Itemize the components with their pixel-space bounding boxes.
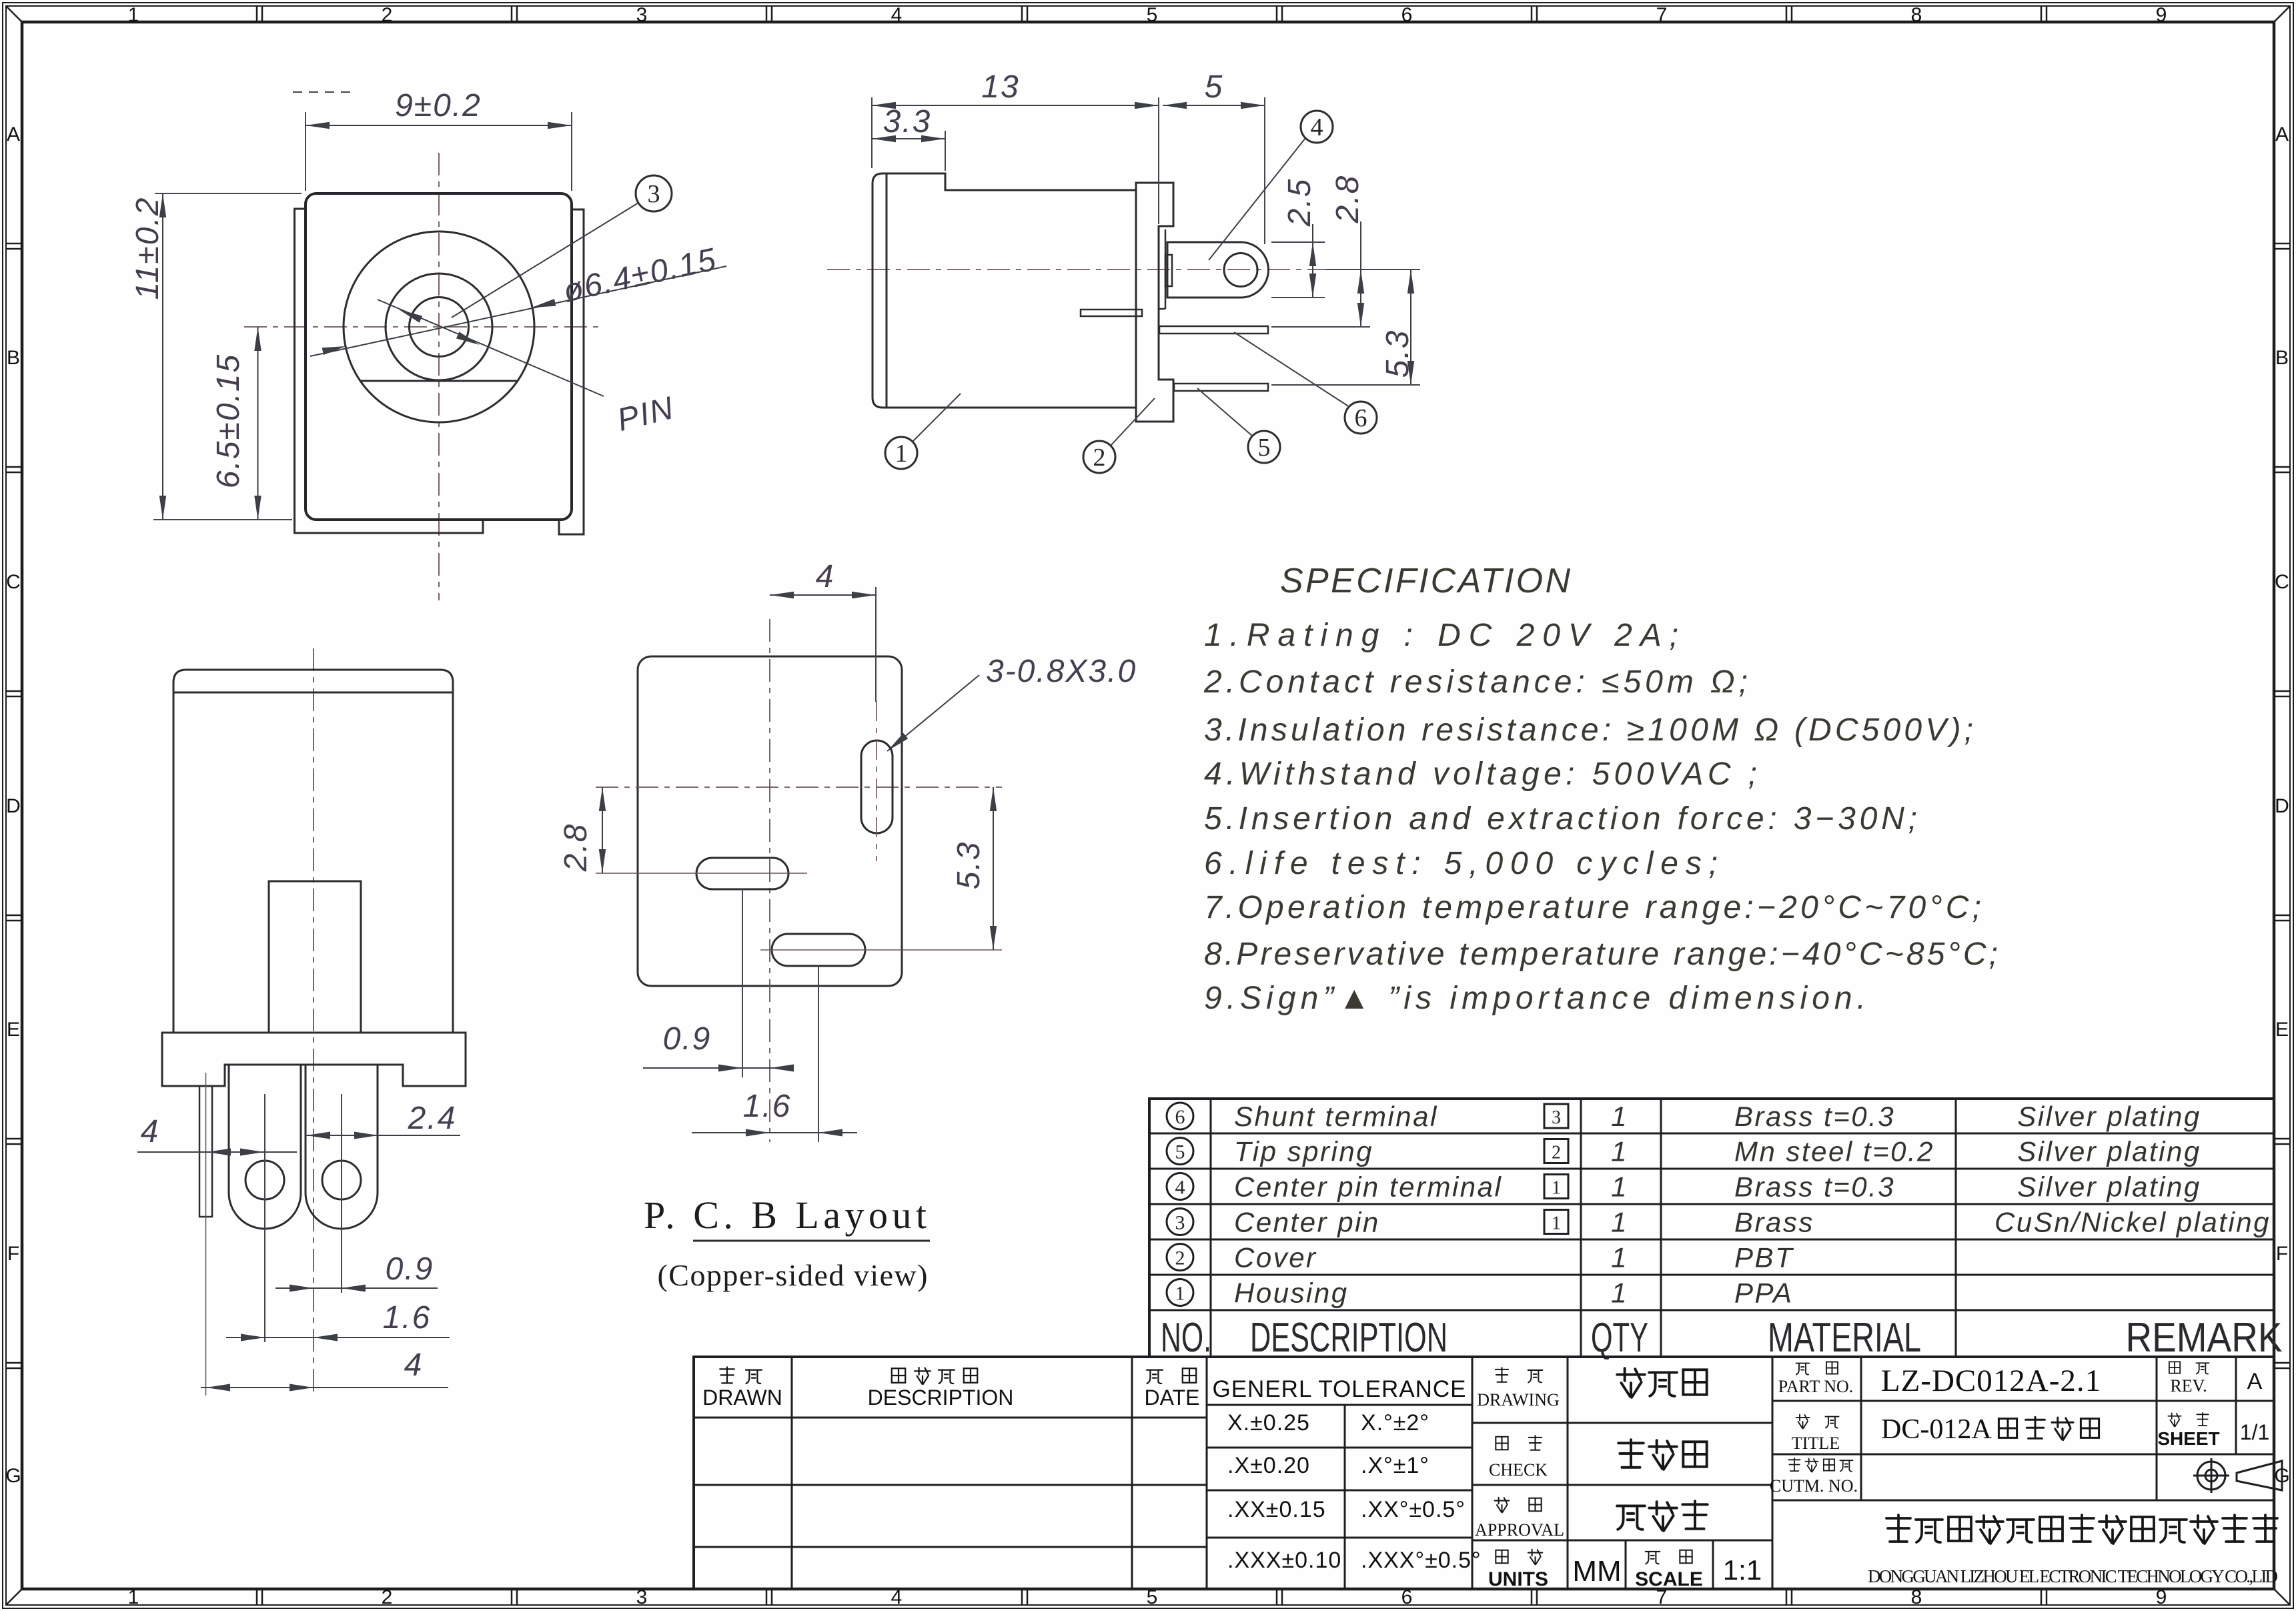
side view: DC jack profile xyxy=(827,69,1420,473)
svg-text:SCALE: SCALE xyxy=(1635,1568,1703,1590)
svg-text:B: B xyxy=(7,347,20,369)
balloon 5 (tip spring) xyxy=(1248,431,1280,463)
svg-text:PPA: PPA xyxy=(1734,1277,1793,1309)
balloon 5 leader xyxy=(1197,388,1253,436)
svg-text:DESCRIPTION: DESCRIPTION xyxy=(868,1386,1014,1410)
company name (Chinese) xyxy=(1886,1515,1910,1542)
BOM row 6: Shunt terminal xyxy=(1167,1103,1193,1129)
tip spring tab (left) xyxy=(1081,310,1142,316)
svg-text:5: 5 xyxy=(1147,4,1158,26)
svg-text:1.6: 1.6 xyxy=(383,1300,432,1335)
pcb vertical centerline xyxy=(769,619,770,1142)
pcb body outline xyxy=(638,656,902,986)
svg-text:5: 5 xyxy=(1175,1141,1185,1163)
svg-text:Silver plating: Silver plating xyxy=(2017,1171,2201,1203)
housing chamfer line xyxy=(173,692,453,694)
title label xyxy=(1796,1415,1810,1429)
svg-text:1: 1 xyxy=(1175,1283,1185,1305)
svg-text:UNITS: UNITS xyxy=(1488,1568,1548,1590)
svg-text:LZ-DC012A-2.1: LZ-DC012A-2.1 xyxy=(1881,1364,2101,1398)
BOM row 5: Tip spring xyxy=(1167,1138,1193,1165)
svg-text:.X°±1°: .X°±1° xyxy=(1361,1453,1429,1478)
part no label xyxy=(1796,1364,1810,1375)
svg-text:3: 3 xyxy=(636,4,648,26)
svg-text:DONGGUAN LIZHOU EL ECTRONIC TE: DONGGUAN LIZHOU EL ECTRONIC TECHNOLOGY C… xyxy=(1868,1566,2278,1586)
balloon 1 leader xyxy=(913,394,961,442)
svg-text:6: 6 xyxy=(1401,4,1413,26)
svg-text:PART NO.: PART NO. xyxy=(1778,1377,1854,1396)
rear view vertical centerline xyxy=(313,648,314,1396)
svg-text:3.3: 3.3 xyxy=(883,104,932,139)
svg-text:DRAWING: DRAWING xyxy=(1477,1390,1560,1410)
svg-text:CUTM. NO.: CUTM. NO. xyxy=(1770,1476,1858,1496)
chord across outer circle xyxy=(360,380,518,382)
units label xyxy=(1496,1550,1508,1563)
svg-text:F: F xyxy=(7,1243,19,1265)
balloon 4 leader xyxy=(1209,138,1305,260)
cover front plate (rounded square body) xyxy=(306,193,572,520)
svg-text:Center pin: Center pin xyxy=(1234,1207,1380,1238)
balloon 6 (shunt terminal) xyxy=(1345,402,1377,434)
svg-text:.XX°±0.5°: .XX°±0.5° xyxy=(1361,1497,1466,1522)
svg-text:MM: MM xyxy=(1572,1555,1621,1588)
svg-text:2.8: 2.8 xyxy=(1330,175,1365,224)
svg-text:5.3: 5.3 xyxy=(951,841,987,890)
svg-text:Silver plating: Silver plating xyxy=(2017,1101,2201,1132)
BOM row 4: Center pin terminal xyxy=(1167,1173,1193,1200)
svg-text:MATERIAL: MATERIAL xyxy=(1768,1315,1921,1361)
slot hole left (horizontal) xyxy=(696,858,788,889)
side view centerline xyxy=(827,269,1329,270)
svg-text:1: 1 xyxy=(1611,1136,1628,1167)
balloon 3 leader xyxy=(452,203,638,318)
cover clip strip xyxy=(1165,229,1167,309)
svg-text:1: 1 xyxy=(1611,1207,1628,1238)
approval name xyxy=(1617,1506,1645,1529)
svg-text:2.8: 2.8 xyxy=(558,823,594,873)
svg-text:2.4: 2.4 xyxy=(408,1101,457,1136)
svg-text:2: 2 xyxy=(1175,1247,1185,1269)
svg-text:4: 4 xyxy=(1175,1177,1185,1199)
svg-text:G: G xyxy=(5,1465,21,1487)
svg-text:1/1: 1/1 xyxy=(2240,1420,2269,1444)
svg-text:DRAWN: DRAWN xyxy=(702,1386,782,1410)
drawing label xyxy=(1496,1368,1508,1382)
cover front plate inner edge xyxy=(886,174,888,407)
svg-text:GENERL TOLERANCE: GENERL TOLERANCE xyxy=(1212,1376,1466,1402)
svg-text:D: D xyxy=(2275,795,2289,817)
svg-text:13: 13 xyxy=(981,69,1019,105)
stray dashed line top-left xyxy=(293,91,352,93)
BOM parts table xyxy=(1149,1099,2283,1361)
balloon 6 leader xyxy=(1234,332,1349,407)
svg-text:3: 3 xyxy=(636,1586,648,1608)
sheet label xyxy=(2168,1413,2181,1426)
svg-text:CHECK: CHECK xyxy=(1489,1460,1548,1480)
svg-text:1: 1 xyxy=(1611,1171,1628,1203)
rear view: housing from behind xyxy=(137,648,466,1396)
svg-text:.XX±0.15: .XX±0.15 xyxy=(1227,1497,1326,1522)
svg-text:1: 1 xyxy=(128,1586,139,1608)
hole in terminal ear xyxy=(1224,253,1257,287)
shunt terminal pin (top) xyxy=(1159,326,1268,334)
drawing name xyxy=(1617,1368,1645,1398)
svg-text:Center pin terminal: Center pin terminal xyxy=(1234,1171,1502,1203)
svg-text:Cover: Cover xyxy=(1234,1242,1317,1273)
side pin centerline xyxy=(205,1073,207,1396)
svg-text:1:1: 1:1 xyxy=(1723,1554,1762,1586)
svg-text:3: 3 xyxy=(648,180,660,208)
svg-text:1: 1 xyxy=(895,440,908,468)
svg-text:5: 5 xyxy=(1258,434,1271,462)
balloon 1 (housing) xyxy=(885,437,917,469)
bottom slot centerline xyxy=(760,949,1002,951)
svg-text:Tip spring: Tip spring xyxy=(1234,1136,1373,1167)
left prong hole xyxy=(245,1161,284,1199)
specification text block xyxy=(1203,562,1998,1016)
mounting flange xyxy=(162,1033,466,1086)
barrel outer circle ø6.4 xyxy=(344,231,534,422)
title block texts xyxy=(702,1362,2282,1590)
svg-text:SHEET: SHEET xyxy=(2157,1428,2219,1449)
svg-text:1: 1 xyxy=(1611,1242,1628,1273)
BOM row 1: Housing xyxy=(1167,1279,1193,1306)
left slot centerline xyxy=(596,873,807,874)
svg-text:2: 2 xyxy=(382,1586,393,1608)
svg-text:A: A xyxy=(2247,1369,2263,1394)
svg-text:C: C xyxy=(2275,571,2289,593)
balloon 2 leader xyxy=(1111,398,1155,446)
svg-text:1: 1 xyxy=(1552,1178,1561,1199)
center pin stub xyxy=(1165,255,1172,286)
slot hole right (vertical) xyxy=(861,740,893,833)
front view: DC jack face xyxy=(130,88,726,600)
slot hole bottom (horizontal) xyxy=(772,934,865,966)
svg-text:3: 3 xyxy=(1175,1212,1185,1234)
center pin terminal ear xyxy=(1167,242,1268,298)
svg-text:B: B xyxy=(2275,347,2289,369)
BOM row 3: Center pin xyxy=(1167,1209,1193,1235)
svg-text:DC-012A: DC-012A xyxy=(1881,1414,1992,1445)
prong extension lines xyxy=(264,1094,265,1342)
svg-text:PBT: PBT xyxy=(1734,1242,1794,1273)
svg-text:X.°±2°: X.°±2° xyxy=(1361,1410,1429,1436)
svg-text:X.±0.25: X.±0.25 xyxy=(1227,1410,1310,1436)
svg-text:NO.: NO. xyxy=(1161,1315,1211,1361)
svg-text:1: 1 xyxy=(128,4,139,26)
svg-text:1: 1 xyxy=(1611,1277,1628,1309)
barrel middle circle xyxy=(386,274,492,380)
svg-text:4: 4 xyxy=(141,1114,160,1149)
svg-text:4: 4 xyxy=(404,1348,424,1383)
svg-text:6: 6 xyxy=(1355,404,1367,432)
svg-text:P. C. B Layout: P. C. B Layout xyxy=(644,1193,927,1237)
approval label xyxy=(1495,1498,1510,1513)
svg-text:CuSn/Nickel plating: CuSn/Nickel plating xyxy=(1994,1207,2271,1238)
svg-text:C: C xyxy=(6,571,21,593)
svg-text:F: F xyxy=(2276,1243,2288,1265)
svg-text:(Copper-sided view): (Copper-sided view) xyxy=(658,1258,928,1292)
side pin (thin) xyxy=(199,1086,212,1217)
check label xyxy=(1496,1437,1508,1450)
svg-text:8: 8 xyxy=(1911,4,1922,26)
housing right edge (side view) xyxy=(1135,183,1137,422)
svg-text:REV.: REV. xyxy=(2170,1376,2207,1396)
svg-text:0.9: 0.9 xyxy=(663,1021,712,1057)
check name xyxy=(1618,1440,1643,1468)
svg-text:9: 9 xyxy=(2156,4,2167,26)
svg-text:2: 2 xyxy=(1552,1143,1561,1163)
svg-text:2: 2 xyxy=(382,4,393,26)
balloon 4 (center pin terminal) xyxy=(1301,111,1333,143)
right slot centerline xyxy=(876,701,877,861)
svg-text:6.5±0.15: 6.5±0.15 xyxy=(211,354,246,489)
svg-text:6: 6 xyxy=(1175,1106,1185,1128)
third angle projection symbol xyxy=(2197,1462,2225,1490)
housing left flange behind cover xyxy=(295,209,484,533)
svg-text:APPROVAL: APPROVAL xyxy=(1475,1520,1564,1540)
svg-text:E: E xyxy=(7,1019,20,1041)
scale label xyxy=(1646,1552,1660,1564)
svg-text:TITLE: TITLE xyxy=(1792,1434,1840,1453)
center pin base protrusion xyxy=(269,881,361,1033)
left prong (solder lug) xyxy=(229,1065,301,1229)
svg-text:1.6: 1.6 xyxy=(743,1089,792,1124)
svg-text:QTY: QTY xyxy=(1591,1315,1648,1361)
svg-text:3: 3 xyxy=(1552,1107,1561,1128)
svg-text:7: 7 xyxy=(1656,4,1668,26)
tip spring pin (bottom) xyxy=(1174,384,1268,391)
PCB layout view xyxy=(558,559,1137,1292)
svg-text:Mn steel t=0.2: Mn steel t=0.2 xyxy=(1734,1136,1934,1167)
svg-text:D: D xyxy=(6,795,21,817)
customer part no label xyxy=(1788,1458,1800,1471)
svg-text:1: 1 xyxy=(1552,1213,1561,1234)
svg-text:.XXX°±0.5°: .XXX°±0.5° xyxy=(1361,1548,1482,1573)
svg-text:8.Preservative temperature ran: 8.Preservative temperature range:−40°C~8… xyxy=(1204,937,1998,972)
svg-text:Silver plating: Silver plating xyxy=(2017,1136,2201,1167)
svg-text:Brass t=0.3: Brass t=0.3 xyxy=(1734,1171,1895,1203)
right prong (solder lug) xyxy=(306,1065,378,1229)
svg-text:REMARK: REMARK xyxy=(2126,1315,2283,1361)
balloon 2 (cover) xyxy=(1083,441,1115,473)
svg-text:.XXX±0.10: .XXX±0.10 xyxy=(1227,1548,1341,1573)
rear housing body xyxy=(173,670,453,1033)
balloon 3 (center pin) xyxy=(636,175,672,211)
PIN leader line xyxy=(378,300,604,396)
svg-text:E: E xyxy=(2275,1019,2289,1041)
date column header xyxy=(1147,1370,1163,1384)
svg-text:Housing: Housing xyxy=(1234,1277,1349,1309)
pcb horizontal centerline xyxy=(596,786,1002,788)
svg-text:A: A xyxy=(7,123,20,145)
svg-text:SPECIFICATION: SPECIFICATION xyxy=(1280,562,1570,600)
housing outline (side) xyxy=(873,173,1173,422)
svg-text:9±0.2: 9±0.2 xyxy=(395,88,482,123)
svg-text:4: 4 xyxy=(816,559,835,594)
title underline xyxy=(693,1240,930,1242)
ø6.4 diameter line xyxy=(310,266,726,356)
housing right flange behind cover xyxy=(559,209,584,534)
front view centerlines xyxy=(244,326,600,328)
svg-text:2.5: 2.5 xyxy=(1282,178,1317,227)
svg-text:.X±0.20: .X±0.20 xyxy=(1227,1453,1310,1478)
drawn column header xyxy=(720,1367,734,1383)
svg-text:4: 4 xyxy=(1311,113,1323,141)
svg-text:DESCRIPTION: DESCRIPTION xyxy=(1250,1315,1448,1361)
title block xyxy=(694,1357,2274,1589)
svg-text:0.9: 0.9 xyxy=(386,1251,434,1287)
svg-text:1: 1 xyxy=(1611,1101,1628,1132)
svg-text:4: 4 xyxy=(891,4,903,26)
description column header xyxy=(892,1368,905,1383)
svg-text:Brass t=0.3: Brass t=0.3 xyxy=(1734,1101,1895,1132)
svg-text:DATE: DATE xyxy=(1145,1386,1200,1410)
svg-text:Brass: Brass xyxy=(1734,1207,1814,1238)
BOM row 2: Cover xyxy=(1167,1244,1193,1271)
svg-text:11±0.2: 11±0.2 xyxy=(130,197,165,300)
svg-text:5: 5 xyxy=(1205,69,1224,105)
svg-text:Shunt terminal: Shunt terminal xyxy=(1234,1101,1438,1132)
svg-text:3-0.8X3.0: 3-0.8X3.0 xyxy=(986,654,1137,689)
svg-text:2: 2 xyxy=(1093,444,1106,472)
rev label xyxy=(2169,1362,2180,1373)
center pin circle xyxy=(410,298,469,357)
right prong hole xyxy=(322,1161,361,1199)
svg-text:A: A xyxy=(2275,123,2289,145)
svg-text:4.Withstand voltage: 500VAC ;: 4.Withstand voltage: 500VAC ; xyxy=(1204,756,1757,792)
